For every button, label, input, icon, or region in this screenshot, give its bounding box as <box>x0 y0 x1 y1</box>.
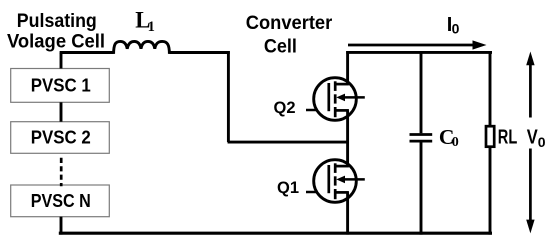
wire below PVSC N to bottom rail <box>60 217 63 235</box>
capacitor C0 <box>410 135 433 142</box>
wire top rail (drain node to load) <box>346 51 492 54</box>
inductor L1 <box>114 41 170 54</box>
svg-text:Cell: Cell <box>264 36 297 57</box>
svg-text:Pulsating: Pulsating <box>17 11 97 32</box>
wire mid node horizontal (between Q2 source and Q1 drain) <box>228 141 348 144</box>
label C0 <box>439 125 459 150</box>
svg-text:1: 1 <box>148 19 155 35</box>
svg-text:Volage Cell: Volage Cell <box>7 31 105 52</box>
wire load bottom lead <box>489 147 492 235</box>
wire vertical drop to mid node <box>227 51 230 142</box>
label V0 <box>527 127 546 151</box>
transistor Q2 <box>306 78 365 121</box>
wire bottom rail <box>59 232 492 235</box>
resistor RL <box>486 126 494 147</box>
label I0 <box>447 14 460 37</box>
svg-text:PVSC N: PVSC N <box>31 191 91 211</box>
svg-text:Converter: Converter <box>246 13 333 34</box>
label L1 <box>135 8 155 36</box>
transistor Q1 <box>306 160 365 203</box>
wire Q2 source to mid node to Q1 drain <box>346 110 349 166</box>
voltage arrow V0 (double-headed) <box>526 52 534 234</box>
wire top-left horizontal (stack top to inductor) <box>60 51 114 54</box>
svg-text:0: 0 <box>452 135 459 150</box>
current arrow I0 <box>348 40 487 49</box>
svg-text:PVSC 1: PVSC 1 <box>31 76 91 96</box>
wire capacitor bottom lead <box>420 142 423 234</box>
wire capacitor top lead <box>420 52 423 133</box>
svg-text:RL: RL <box>498 127 518 149</box>
wire from inductor to converter drop <box>169 51 229 54</box>
wire between PVSC1 and PVSC2 <box>60 102 63 121</box>
svg-text:PVSC 2: PVSC 2 <box>31 128 91 148</box>
label: Converter Cell <box>246 13 333 57</box>
box PVSC 2 <box>11 122 110 154</box>
svg-text:Q1: Q1 <box>277 178 299 197</box>
wire Q1 source to bottom rail <box>346 192 349 234</box>
svg-text:Q2: Q2 <box>274 98 296 117</box>
box PVSC 1 <box>11 69 110 103</box>
box PVSC N <box>11 185 110 217</box>
label: Pulsating Volage Cell <box>7 11 105 52</box>
wire stack top stub (PVSC1 to top node) <box>60 53 63 69</box>
wire Q2 drain to top rail <box>346 51 349 84</box>
wire load top lead <box>489 52 492 125</box>
svg-text:0: 0 <box>452 21 460 37</box>
svg-text:0: 0 <box>538 134 546 150</box>
svg-text:V: V <box>527 127 539 149</box>
wire dotted continuation between PVSC2 and PVSC N <box>60 158 63 186</box>
